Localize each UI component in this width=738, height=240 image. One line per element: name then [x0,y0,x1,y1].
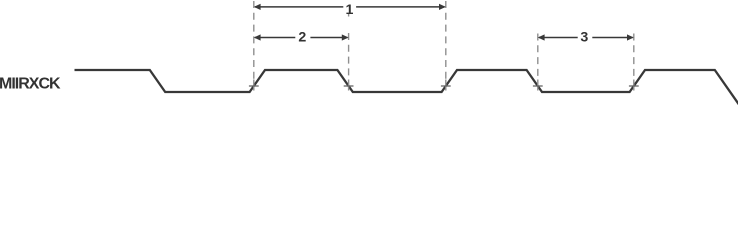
svg-text:2: 2 [298,29,306,45]
dimension 2 (high pulse width) line [255,37,295,39]
svg-text:3: 3 [580,29,588,45]
measurement tick on falling edge at t4 [533,85,543,87]
node t5 dashed reference line (third rising edge) [633,34,635,80]
measurement tick on rising edge at t1 [249,85,259,87]
dimension 1 (clock period) line [255,6,343,8]
node t4 dashed reference line (falling edge) [537,34,539,80]
dimension 1 left arrowhead [254,4,261,10]
measurement tick on falling edge at t2 [344,85,354,87]
dimension 2 right arrowhead [342,34,349,40]
svg-text:MIIRXCK: MIIRXCK [0,76,61,93]
wire MIIRXCK clock waveform [75,70,738,104]
measurement tick on rising edge at t3 [441,85,451,87]
dimension 3 left arrowhead [538,34,545,40]
dimension 3 (low pulse width) line [539,37,578,39]
svg-text:1: 1 [346,2,354,18]
node t3 dashed reference line (second rising edge) [445,1,447,80]
dimension 1 right arrowhead [439,4,446,10]
dimension 2 left arrowhead [254,34,261,40]
node t1 dashed reference line (first rising edge) [253,1,255,80]
measurement tick on rising edge at t5 [629,85,639,87]
dimension 3 right arrowhead [627,34,634,40]
node t2 dashed reference line (falling edge) [348,14,350,17]
